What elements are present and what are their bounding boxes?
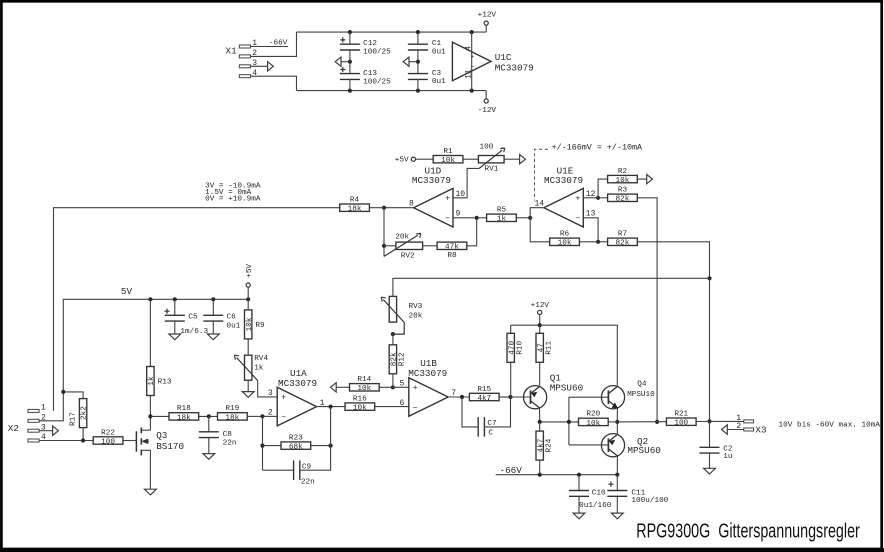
svg-text:22n: 22n: [301, 479, 315, 487]
resistor R10: [507, 333, 524, 362]
svg-text:C1: C1: [432, 40, 442, 48]
wire R11 top wire: [539, 325, 541, 333]
svg-text:R1: R1: [443, 148, 453, 156]
wire Q4/Q2 base vertical: [568, 397, 570, 445]
potentiometer RV2: [384, 233, 423, 260]
transistor Q1: [524, 373, 584, 409]
resistor R4: [340, 197, 370, 214]
wire R9-RV4 wire: [247, 339, 249, 355]
wire R4 right wire: [369, 207, 384, 209]
resistor R15: [469, 386, 499, 403]
capacitor C12: [340, 37, 391, 56]
svg-text:X2: X2: [8, 423, 19, 434]
op-amp U1D: [409, 166, 465, 228]
resistor R19: [218, 405, 248, 422]
wire -66V rail: [496, 474, 618, 476]
svg-text:1: 1: [41, 404, 46, 413]
wire C10 column: [578, 475, 580, 491]
ground reference arrow (C12/C13 mid): [335, 57, 341, 66]
junction node R6/R7/pin13: [596, 240, 600, 244]
resistor R8: [437, 242, 467, 260]
svg-text:RV1: RV1: [485, 165, 499, 173]
svg-text:R14: R14: [357, 376, 371, 384]
svg-text:C10: C10: [592, 490, 606, 498]
wire C1-C3 mid: [417, 50, 419, 74]
op-amp U1B: [399, 358, 456, 416]
ground reference arrow (C1/C3 mid): [403, 57, 409, 66]
svg-text:10k: 10k: [246, 317, 254, 331]
ground C6 ground: [207, 334, 219, 340]
wire X1 pin3 stub: [251, 65, 268, 67]
resistor R11: [536, 333, 553, 362]
wire C5 to gnd: [174, 321, 176, 334]
svg-text:47k: 47k: [445, 244, 459, 252]
wire R3 to output node vertical: [637, 198, 657, 422]
svg-text:2: 2: [41, 413, 46, 422]
wire R1 left wire: [416, 158, 434, 160]
wire Q2 emitter wire: [616, 422, 618, 435]
wire +12V stub: [485, 25, 487, 32]
terminal +5V (R9): [246, 283, 250, 287]
wire R15 right wire: [499, 396, 510, 398]
svg-text:+12V: +12V: [531, 302, 550, 310]
svg-text:−: −: [445, 215, 450, 224]
junction node R17/R22: [81, 438, 85, 442]
junction top rail junctions: [348, 30, 352, 34]
op-amp U1A: [268, 368, 325, 426]
wire pin10 jog to RV1 wiper: [453, 168, 479, 197]
resistor R24: [536, 431, 553, 460]
svg-text:MC33079: MC33079: [495, 62, 534, 73]
capacitor C5: [164, 309, 208, 336]
capacitor C9: [294, 460, 315, 486]
wire gnd stub C1: [409, 61, 418, 63]
wire R17 branch: [63, 392, 83, 399]
arrow R2 output: [647, 174, 653, 183]
svg-text:R19: R19: [225, 405, 239, 413]
svg-text:R15: R15: [477, 386, 491, 394]
junction mid node C1/C3: [416, 60, 420, 64]
junction 5V rail junctions: [148, 297, 152, 301]
dashed annotation line: [535, 149, 549, 200]
svg-text:-66V: -66V: [269, 40, 288, 48]
connector X2: [8, 404, 46, 443]
transistor Q4: [601, 380, 655, 409]
svg-text:R20: R20: [586, 411, 600, 419]
svg-text:82k: 82k: [616, 240, 630, 248]
wire Q2 collector wire: [616, 456, 618, 475]
svg-text:+: +: [445, 195, 450, 204]
svg-text:+: +: [575, 195, 580, 204]
ground Q3 ground: [145, 489, 157, 495]
svg-text:C5: C5: [188, 313, 198, 321]
connector X3: [736, 414, 766, 435]
svg-text:R17: R17: [70, 412, 78, 426]
resistor R12: [389, 345, 406, 374]
resistor R18: [169, 405, 199, 422]
arrow R14 input: [330, 383, 336, 392]
resistor R21: [666, 411, 696, 428]
wire U1C power vertical lower: [471, 81, 473, 91]
svg-text:1k: 1k: [148, 376, 156, 386]
svg-text:10V bis -60V max. 10mA: 10V bis -60V max. 10mA: [779, 421, 881, 429]
junction node row dots: [538, 420, 542, 424]
svg-text:RV2: RV2: [401, 253, 415, 261]
wire R5 right wire: [516, 217, 530, 219]
wire U1C power through triangle: [471, 42, 473, 81]
junction node RV2 wiper: [382, 244, 386, 248]
wire Q2 base wire: [569, 444, 609, 446]
ground C8 ground: [203, 454, 215, 460]
wire top supply rail +12V: [297, 31, 487, 33]
svg-text:R24: R24: [545, 438, 553, 452]
wire C5 column: [174, 299, 176, 315]
svg-text:+: +: [413, 384, 418, 393]
arrow X2 pin3: [53, 426, 59, 435]
wire C9 right wire: [300, 407, 331, 471]
svg-text:18k: 18k: [225, 414, 239, 422]
resistor R14: [350, 376, 380, 393]
resistor R2: [608, 168, 638, 185]
wire R21 right wire: [696, 420, 709, 422]
wire C11 column: [616, 475, 618, 491]
svg-text:C12: C12: [363, 40, 377, 48]
wire RV3 top to R7 node: [393, 278, 710, 296]
wire R23 right wire: [311, 445, 331, 447]
wire Q1 collector wire: [539, 408, 541, 422]
svg-text:10k: 10k: [357, 385, 371, 393]
wire C12 column: [349, 32, 351, 44]
connector X1: [226, 39, 258, 78]
svg-text:+5V: +5V: [246, 264, 254, 278]
svg-text:3: 3: [268, 389, 273, 398]
svg-text:14: 14: [534, 199, 544, 208]
wire R18-R19 wire: [199, 415, 218, 417]
wire U1D pin9 stub: [453, 217, 477, 219]
ground RV4 ground: [242, 392, 254, 398]
transistor Q2: [601, 434, 660, 457]
svg-text:+12V: +12V: [478, 12, 497, 20]
svg-text:100u/100: 100u/100: [631, 497, 668, 505]
svg-text:+: +: [281, 394, 286, 403]
ground C2 ground: [704, 468, 716, 474]
wire R22 to Q3 gate: [123, 440, 136, 442]
svg-text:X1: X1: [226, 46, 238, 57]
junction node U1B out: [460, 395, 464, 399]
capacitor C1: [408, 40, 446, 56]
arrow X1 pin3: [268, 62, 274, 71]
junction node U1A out: [329, 405, 333, 409]
wire gnd stub C12: [341, 61, 350, 63]
wire R24 bottom wire: [539, 460, 541, 475]
resistor R3: [608, 187, 638, 204]
wire Q4 emitter wire: [616, 408, 618, 422]
wire R24 top wire: [539, 422, 541, 431]
wire R9 top wire: [247, 299, 249, 310]
svg-text:R13: R13: [158, 379, 172, 387]
svg-text:+: +: [470, 54, 474, 61]
svg-text:Q4: Q4: [637, 380, 647, 388]
wire U1B output: [448, 396, 469, 398]
ground C10 ground: [573, 513, 585, 519]
svg-text:1u: 1u: [723, 453, 732, 461]
svg-text:18k: 18k: [348, 206, 362, 214]
wire C10 to gnd: [578, 496, 580, 513]
svg-text:100: 100: [674, 420, 688, 428]
svg-text:47: 47: [537, 343, 545, 353]
capacitor C3: [408, 70, 446, 86]
capacitor C13: [340, 67, 391, 87]
junction node pin12: [596, 196, 600, 200]
wire Q1 base wire: [511, 396, 531, 398]
resistor R9: [245, 310, 266, 339]
svg-text:−: −: [413, 404, 418, 413]
svg-text:2k2: 2k2: [81, 406, 89, 420]
svg-text:6: 6: [399, 399, 404, 408]
wire U1D out to RV2: [383, 208, 385, 257]
wire R16 right wire: [375, 406, 409, 408]
wire R3 left wire: [598, 197, 608, 199]
svg-text:R22: R22: [101, 429, 115, 437]
wire R10 bottom wire: [510, 362, 512, 397]
svg-text:C6: C6: [227, 313, 237, 321]
svg-text:RPG9300G Gitterspannungsregle: RPG9300G Gitterspannungsregler: [636, 521, 860, 543]
svg-text:R11: R11: [545, 340, 553, 354]
junction node U1D out / R4: [382, 206, 386, 210]
junction node R18/R19/C8: [207, 414, 211, 418]
svg-text:R5: R5: [497, 207, 507, 215]
potentiometer RV3: [381, 296, 423, 334]
svg-text:100: 100: [101, 438, 115, 446]
junction node X2 pin2 / R17: [61, 390, 65, 394]
svg-text:10k: 10k: [558, 240, 572, 248]
wire RV4 bottom to gnd: [247, 380, 249, 391]
wire X2 pin2 to 5V rail: [39, 299, 248, 421]
wire output node row: [540, 421, 579, 423]
wire +5V stub: [247, 287, 249, 299]
junction node pin9/R5: [475, 216, 479, 220]
ground C11 ground: [611, 513, 623, 519]
resistor R22: [93, 429, 123, 446]
wire R4 net from X2 pin1: [54, 208, 340, 411]
wire R7 to X3 node vertical: [637, 242, 709, 422]
wire C7 left branch: [462, 397, 478, 427]
svg-text:0V = +10.9mA: 0V = +10.9mA: [205, 196, 261, 204]
junction mid node C12/C13: [348, 60, 352, 64]
svg-text:R3: R3: [618, 187, 628, 195]
svg-text:R9: R9: [255, 322, 265, 330]
arrow RV1 output: [520, 155, 526, 164]
wire X1 pin4 to bottom rail: [251, 76, 297, 90]
wire R8 to pin9 node: [467, 218, 477, 246]
wire U1E pin13 route: [583, 218, 598, 242]
wire C11 to gnd: [616, 496, 618, 513]
wire C8 to gnd: [208, 438, 210, 454]
wire RV4 wiper to U1A pin3: [258, 381, 278, 397]
wire Q3 source: [141, 450, 150, 489]
svg-text:−: −: [575, 215, 580, 224]
svg-text:22n: 22n: [223, 439, 237, 447]
wire pin2 node down: [262, 416, 264, 470]
svg-text:10k: 10k: [353, 405, 367, 413]
svg-text:MC33079: MC33079: [408, 368, 447, 379]
wire U1C power vertical: [471, 32, 473, 42]
svg-text:MPSU60: MPSU60: [550, 382, 583, 393]
wire R6 right wire: [579, 241, 598, 243]
wire R19 right wire: [247, 415, 262, 417]
transistor Q3: [136, 428, 184, 456]
wire U1D output wire: [384, 207, 414, 209]
wire +12V rail: [511, 325, 618, 386]
wire R5 left wire: [477, 217, 487, 219]
svg-text:−: −: [281, 414, 286, 423]
svg-text:BS170: BS170: [156, 441, 184, 452]
svg-text:10k: 10k: [616, 177, 630, 185]
wire Q4 base wire: [569, 396, 609, 398]
svg-text:0u1: 0u1: [227, 322, 241, 330]
svg-text:C13: C13: [363, 70, 377, 78]
svg-text:0u1: 0u1: [432, 78, 446, 86]
resistor R23: [281, 434, 311, 451]
wire C7 right branch: [484, 397, 510, 427]
arrow X3 pin2: [722, 425, 728, 434]
junction bottom rail junctions: [348, 89, 352, 93]
junction -66V rail junctions: [538, 473, 542, 477]
wire U1A output: [317, 406, 345, 408]
wire R14 left wire: [336, 386, 349, 388]
svg-text:68k: 68k: [289, 444, 303, 452]
wire X2 pin4 wire: [39, 440, 93, 442]
wire R11 bottom wire: [539, 362, 541, 385]
svg-text:MC33079: MC33079: [278, 378, 317, 389]
wire R23 left wire: [263, 445, 282, 447]
svg-text:4k7: 4k7: [537, 438, 545, 452]
wire node row mid: [617, 421, 666, 423]
svg-text:Q3: Q3: [156, 430, 167, 441]
wire U1A pin2 stub: [263, 415, 278, 417]
wire R12 top wire: [392, 334, 394, 345]
svg-text:R6: R6: [560, 231, 570, 239]
wire R12 bottom wire: [392, 374, 394, 388]
capacitor C8: [199, 431, 237, 447]
svg-text:C: C: [488, 429, 493, 437]
svg-text:−: −: [470, 64, 474, 71]
svg-text:X3: X3: [755, 424, 766, 435]
terminal +12V (output stage): [538, 310, 542, 314]
svg-text:18k: 18k: [177, 414, 191, 422]
border bottom (decorative): [0, 548, 884, 552]
junction node U1A pin2: [260, 414, 264, 418]
capacitor C10: [569, 490, 612, 510]
potentiometer RV4: [234, 355, 268, 381]
junction node R15/R10/C7/Q1 base: [508, 395, 512, 399]
wire bottom supply rail -12V: [297, 90, 487, 92]
terminal +5V (R1 row): [411, 157, 415, 161]
resistor R17: [70, 399, 89, 428]
svg-text:10: 10: [456, 190, 466, 199]
svg-text:1m/6.3: 1m/6.3: [180, 328, 208, 336]
op-amp U1C (power pins): [452, 42, 533, 81]
wire R20 right wire: [608, 421, 617, 423]
wire C12-C13 mid: [349, 50, 351, 74]
svg-text:C8: C8: [223, 431, 233, 439]
resistor R6: [550, 231, 580, 248]
wire pin12 up to R2: [598, 179, 608, 198]
svg-text:0u1/160: 0u1/160: [579, 502, 612, 510]
junction node R23 right: [329, 444, 333, 448]
svg-text:R12: R12: [399, 352, 407, 366]
svg-text:10k: 10k: [586, 420, 600, 428]
wire U1E output net: [530, 208, 550, 242]
resistor R13: [147, 367, 172, 396]
capacitor C6: [203, 313, 240, 330]
resistor R20: [579, 411, 609, 428]
svg-text:1k: 1k: [497, 216, 507, 224]
svg-text:+/-166mV = +/-10mA: +/-166mV = +/-10mA: [552, 142, 643, 152]
wire C2 to gnd: [709, 453, 711, 468]
wire RV1 right wire: [504, 158, 519, 160]
svg-text:1k: 1k: [254, 364, 264, 372]
wire C3 to bottom rail: [417, 79, 419, 90]
svg-text:+5V: +5V: [395, 157, 409, 165]
svg-text:470: 470: [508, 340, 516, 354]
svg-text:0u1: 0u1: [432, 49, 446, 57]
svg-text:MPSU60: MPSU60: [627, 445, 660, 456]
ground C5 ground: [169, 334, 181, 340]
potentiometer RV1: [478, 144, 504, 174]
terminal +12V: [484, 21, 488, 25]
wire R18 left wire: [150, 415, 169, 417]
junction node R23 left: [260, 444, 264, 448]
junction node R13/R18/Q3 drain: [148, 414, 152, 418]
wire U1E pin12 stub: [583, 197, 598, 199]
junction node RV3 top line / R7 vertical: [707, 276, 711, 280]
svg-text:R4: R4: [350, 197, 360, 205]
wire C6 to gnd: [212, 321, 214, 334]
capacitor C7: [478, 417, 497, 437]
svg-text:R16: R16: [353, 395, 367, 403]
svg-text:-66V: -66V: [500, 465, 523, 476]
junction node R5/U1E out: [528, 216, 532, 220]
svg-text:-12V: -12V: [478, 107, 497, 115]
wire C8 column: [208, 416, 210, 431]
wire RV2 left wire: [384, 245, 396, 247]
wire -12V stub: [485, 91, 487, 99]
svg-text:RV4: RV4: [254, 355, 268, 363]
capacitor C11: [607, 482, 668, 505]
resistor R16: [345, 395, 375, 412]
wire Q3 drain: [141, 429, 150, 431]
svg-text:20k: 20k: [395, 234, 409, 242]
wire R1-RV1 wire: [463, 158, 479, 160]
wire C13 to bottom rail: [349, 79, 351, 90]
wire R14 right wire: [379, 386, 393, 388]
svg-text:82k: 82k: [391, 352, 399, 366]
wire C6 column: [212, 299, 214, 315]
svg-text:R7: R7: [618, 231, 628, 239]
svg-text:100/25: 100/25: [363, 79, 391, 87]
wire R7 left wire: [598, 241, 608, 243]
resistor R5: [487, 207, 517, 224]
terminal -12V: [484, 99, 488, 103]
junction node RV3/R12: [391, 332, 395, 336]
svg-text:5V: 5V: [121, 286, 133, 297]
svg-text:100/25: 100/25: [363, 49, 391, 57]
wire R10 top wire: [510, 325, 512, 333]
svg-text:R21: R21: [674, 411, 688, 419]
svg-text:R8: R8: [447, 252, 457, 260]
svg-text:R10: R10: [516, 340, 524, 354]
